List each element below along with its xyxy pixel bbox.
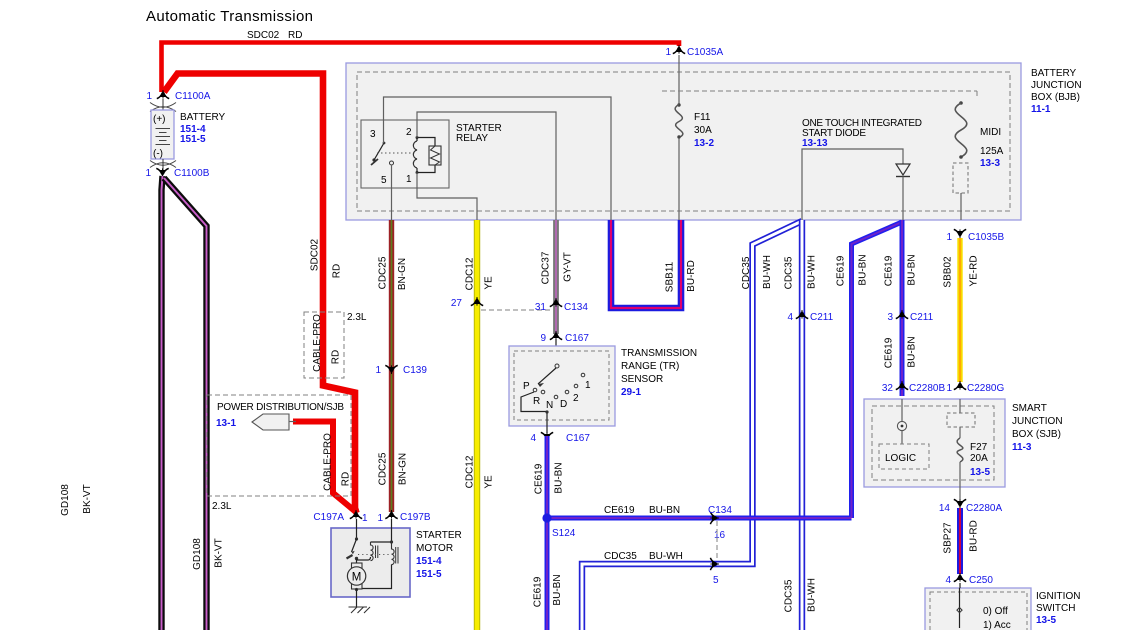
connector C134 pin31 — [550, 298, 562, 307]
svg-text:CE619: CE619 — [533, 576, 544, 607]
svg-text:13-2: 13-2 — [694, 138, 714, 149]
svg-text:BU-BN: BU-BN — [554, 462, 565, 493]
svg-text:C1035A: C1035A — [687, 47, 723, 58]
svg-text:BN-GN: BN-GN — [398, 453, 409, 485]
svg-text:BATTERY: BATTERY — [1031, 68, 1077, 79]
svg-text:CDC25: CDC25 — [378, 256, 389, 289]
fuse MIDI 125A — [959, 101, 963, 105]
battery B1 box — [151, 110, 174, 159]
svg-text:9: 9 — [540, 333, 546, 344]
svg-text:SBB11: SBB11 — [665, 261, 676, 292]
connector C2280B pin32 — [896, 381, 908, 390]
svg-text:JUNCTION: JUNCTION — [1012, 416, 1063, 427]
svg-text:YE-RD: YE-RD — [969, 255, 980, 286]
svg-text:BU-WH: BU-WH — [649, 551, 683, 562]
svg-text:C197B: C197B — [400, 512, 431, 523]
svg-text:YE: YE — [484, 276, 495, 290]
svg-text:GD108: GD108 — [60, 484, 71, 516]
connector C1100A — [157, 90, 169, 99]
svg-text:C1100A: C1100A — [175, 91, 211, 102]
svg-text:Automatic Transmission: Automatic Transmission — [146, 8, 313, 25]
svg-text:32: 32 — [882, 383, 894, 394]
connector C167 pin4 — [541, 432, 553, 441]
connector C211 pin3 — [896, 310, 908, 319]
wire CE619 BU-BN network — [547, 222, 902, 630]
svg-text:SDC02: SDC02 — [247, 30, 280, 41]
starter solenoid coil left — [391, 519, 393, 542]
svg-text:1: 1 — [946, 232, 952, 243]
svg-text:3: 3 — [887, 312, 893, 323]
wire SBP27 BU-RD — [957, 508, 963, 574]
relay switch — [372, 158, 375, 161]
svg-text:13-5: 13-5 — [970, 467, 990, 478]
svg-text:4: 4 — [945, 575, 951, 586]
wire CDC25 BN-GN (BJB to C197B) — [389, 220, 394, 512]
svg-text:RD: RD — [331, 350, 342, 364]
svg-text:SENSOR: SENSOR — [621, 374, 663, 385]
svg-text:RELAY: RELAY — [456, 133, 488, 144]
ignition switch internals — [959, 583, 962, 628]
svg-text:2.3L: 2.3L — [212, 501, 232, 512]
SJB input node — [901, 399, 903, 421]
svg-text:CABLE-PRO: CABLE-PRO — [323, 433, 334, 491]
svg-text:CDC35: CDC35 — [741, 256, 752, 289]
svg-text:2: 2 — [406, 127, 412, 138]
smart junction box SJB — [864, 399, 1005, 487]
svg-text:S124: S124 — [552, 528, 576, 539]
connector C250 pin4 — [954, 573, 966, 582]
battery junction box BJB — [346, 63, 1021, 220]
svg-text:SDC02: SDC02 — [310, 238, 321, 271]
relay actuator dotted — [377, 152, 414, 154]
svg-text:BK-VT: BK-VT — [82, 484, 93, 513]
relay resistor — [417, 138, 435, 173]
connector C134 pin27 — [471, 297, 483, 306]
svg-text:MOTOR: MOTOR — [416, 543, 453, 554]
dashed bus bar — [662, 91, 977, 99]
svg-text:SMART: SMART — [1012, 403, 1047, 414]
svg-text:GD108: GD108 — [192, 538, 203, 570]
svg-text:F27: F27 — [970, 442, 988, 453]
svg-text:BU-BN: BU-BN — [858, 254, 869, 285]
MIDI fuse holder dashed — [953, 163, 968, 193]
relay coil — [416, 136, 419, 139]
ground below starter motor — [355, 588, 358, 591]
fuse F11 30A — [677, 103, 680, 106]
svg-text:CDC35: CDC35 — [604, 551, 637, 562]
svg-text:125A: 125A — [980, 146, 1004, 157]
connector halves arcs top — [150, 103, 176, 112]
svg-text:151-5: 151-5 — [180, 134, 206, 145]
starter motor box — [331, 528, 410, 597]
svg-text:C2280A: C2280A — [966, 503, 1002, 514]
svg-text:CDC37: CDC37 — [541, 251, 552, 284]
svg-text:D: D — [560, 399, 567, 410]
svg-text:C211: C211 — [910, 312, 934, 323]
svg-text:BOX (SJB): BOX (SJB) — [1012, 429, 1061, 440]
motor M1 — [352, 563, 363, 589]
connector C167 pin9 — [550, 331, 562, 340]
wire GD108 BK-VT right — [164, 178, 207, 630]
svg-text:1: 1 — [406, 174, 412, 185]
svg-text:5: 5 — [713, 575, 719, 586]
svg-text:13-3: 13-3 — [980, 158, 1000, 169]
svg-text:C1035B: C1035B — [968, 232, 1004, 243]
LOGIC box — [879, 444, 929, 469]
svg-text:JUNCTION: JUNCTION — [1031, 80, 1082, 91]
svg-text:13-13: 13-13 — [802, 138, 828, 149]
svg-text:13-1: 13-1 — [216, 418, 236, 429]
svg-text:SBB02: SBB02 — [943, 256, 954, 288]
svg-text:4: 4 — [530, 433, 536, 444]
svg-text:C2280G: C2280G — [967, 383, 1004, 394]
connector C2280A pin14 — [959, 487, 961, 500]
svg-text:2: 2 — [573, 393, 579, 404]
svg-text:BU-RD: BU-RD — [969, 520, 980, 552]
svg-text:IGNITION: IGNITION — [1036, 591, 1080, 602]
svg-text:C167: C167 — [565, 333, 589, 344]
wire SBB02 YE-RD — [957, 238, 962, 382]
TR output wire — [521, 392, 547, 426]
splice S124 — [542, 513, 551, 522]
svg-text:RD: RD — [332, 264, 343, 278]
connector C139 — [385, 365, 397, 374]
svg-text:1: 1 — [585, 380, 591, 391]
connector C134 pin16 — [710, 512, 719, 524]
svg-text:C139: C139 — [403, 365, 427, 376]
svg-text:BU-WH: BU-WH — [807, 578, 818, 612]
svg-text:CE619: CE619 — [604, 505, 635, 516]
svg-text:C134: C134 — [564, 302, 588, 313]
dashed link C134 lower — [716, 521, 718, 561]
one touch integrated start diode CR1 — [802, 149, 903, 220]
svg-text:11-3: 11-3 — [1012, 442, 1032, 453]
svg-text:C1100B: C1100B — [174, 168, 210, 179]
svg-text:RD: RD — [341, 472, 352, 486]
svg-text:C134: C134 — [708, 505, 732, 516]
svg-text:31: 31 — [535, 302, 547, 313]
svg-text:CE619: CE619 — [836, 255, 847, 286]
connector C1035A — [673, 45, 685, 54]
battery plates — [156, 129, 171, 145]
svg-text:M: M — [352, 572, 362, 584]
wire SDC02 RD thin (battery to C1035A) — [162, 43, 680, 93]
svg-text:SBP27: SBP27 — [943, 522, 954, 554]
svg-text:F11: F11 — [694, 112, 711, 123]
starter switch — [356, 519, 358, 539]
svg-text:1: 1 — [377, 513, 383, 524]
svg-text:3: 3 — [370, 129, 376, 140]
svg-text:TRANSMISSION: TRANSMISSION — [621, 348, 697, 359]
svg-text:P: P — [523, 381, 530, 392]
svg-text:BK-VT: BK-VT — [214, 538, 225, 567]
svg-text:CDC35: CDC35 — [784, 579, 795, 612]
svg-text:151-4: 151-4 — [416, 556, 442, 567]
svg-text:BU-WH: BU-WH — [762, 255, 773, 289]
wire F11 to BJB bottom — [678, 138, 680, 220]
svg-text:BU-RD: BU-RD — [686, 260, 697, 292]
wire SDC02 RD thick cable (battery to C197A) — [164, 74, 357, 514]
starter relay K1 box — [361, 120, 449, 188]
svg-text:C2280B: C2280B — [909, 383, 945, 394]
wire CDC12 YE (BJB to bottom) — [474, 220, 480, 630]
svg-text:1) Acc: 1) Acc — [983, 620, 1011, 630]
svg-text:BU-BN: BU-BN — [649, 505, 680, 516]
svg-text:CDC12: CDC12 — [465, 455, 476, 488]
wire GD108 BK-VT left — [162, 176, 163, 630]
svg-text:C250: C250 — [969, 575, 993, 586]
svg-text:1: 1 — [362, 513, 368, 524]
svg-text:BOX (BJB): BOX (BJB) — [1031, 92, 1080, 103]
svg-text:BU-BN: BU-BN — [552, 574, 563, 605]
wire CDC35 BU-WH straight (BJB to bottom) — [799, 220, 805, 630]
svg-text:1: 1 — [146, 91, 152, 102]
ignition switch box — [925, 588, 1031, 630]
svg-text:14: 14 — [939, 503, 951, 514]
svg-text:STARTER: STARTER — [416, 530, 462, 541]
starter solenoid coil right — [392, 542, 395, 565]
connector halves arcs bottom — [150, 161, 176, 168]
TR sensor lever — [555, 364, 559, 368]
svg-text:BU-WH: BU-WH — [807, 255, 818, 289]
svg-text:MIDI: MIDI — [980, 127, 1001, 138]
connector C2280G pin1 — [954, 381, 966, 390]
svg-text:RANGE (TR): RANGE (TR) — [621, 361, 679, 372]
relay pin5 — [390, 161, 394, 165]
svg-text:CABLE-PRO: CABLE-PRO — [312, 314, 323, 372]
svg-text:CE619: CE619 — [884, 337, 895, 368]
svg-text:16: 16 — [714, 530, 726, 541]
svg-text:2.3L: 2.3L — [347, 312, 367, 323]
svg-text:1: 1 — [946, 383, 952, 394]
svg-text:POWER DISTRIBUTION/SJB: POWER DISTRIBUTION/SJB — [217, 402, 344, 413]
svg-text:CDC35: CDC35 — [784, 256, 795, 289]
svg-text:CE619: CE619 — [534, 463, 545, 494]
svg-text:0) Off: 0) Off — [983, 606, 1008, 617]
svg-text:30A: 30A — [694, 125, 712, 136]
power distribution box (cable-pro 2) — [207, 395, 351, 496]
svg-text:4: 4 — [787, 312, 793, 323]
connector C134 pin5 — [710, 558, 719, 570]
fuse F27 20A — [959, 399, 961, 413]
svg-text:1: 1 — [145, 168, 151, 179]
svg-text:BN-GN: BN-GN — [397, 258, 408, 290]
wire CDC37 GY-VT (BJB to TR sensor) — [553, 220, 559, 334]
svg-text:C167: C167 — [566, 433, 590, 444]
svg-text:1: 1 — [375, 365, 381, 376]
svg-text:20A: 20A — [970, 453, 988, 464]
svg-text:CDC25: CDC25 — [378, 452, 389, 485]
svg-text:CE619: CE619 — [884, 255, 895, 286]
relay pin2 wire to CDC37 — [417, 112, 556, 220]
transmission range TR sensor box — [555, 339, 557, 366]
wire from C1035A to F11 — [678, 55, 680, 104]
svg-text:1: 1 — [665, 47, 671, 58]
svg-text:11-1: 11-1 — [1031, 104, 1051, 115]
svg-text:YE: YE — [484, 475, 495, 489]
cable-pro box 1 — [304, 312, 344, 378]
connector C211 pin4 — [796, 310, 808, 319]
wire CDC35 BU-WH branch (BJB to bottom via corner) — [582, 221, 802, 630]
svg-text:151-5: 151-5 — [416, 569, 442, 580]
connector C197A — [350, 510, 362, 519]
svg-text:13-5: 13-5 — [1036, 615, 1056, 626]
svg-text:C211: C211 — [810, 312, 834, 323]
svg-text:C197A: C197A — [313, 512, 344, 523]
svg-text:(+): (+) — [153, 114, 166, 125]
relay pin3 wire to SBB11 — [384, 97, 612, 220]
svg-text:(-): (-) — [153, 149, 163, 160]
svg-text:R: R — [533, 396, 540, 407]
svg-text:SWITCH: SWITCH — [1036, 603, 1075, 614]
svg-text:LOGIC: LOGIC — [885, 453, 916, 464]
connector C1035B — [954, 229, 966, 238]
connector C197B — [385, 510, 397, 519]
relay pin1 wire to CDC12 — [417, 173, 477, 221]
svg-text:29-1: 29-1 — [621, 387, 641, 398]
wire SBB11 BU-RD U-shape — [611, 220, 681, 308]
svg-text:RD: RD — [288, 30, 302, 41]
off-page pentagon S/JB — [252, 414, 289, 430]
dashed link C134 — [481, 309, 552, 311]
wire RD branch (power distribution pentagon to C197A) — [293, 422, 356, 513]
connector C1100B — [156, 168, 168, 177]
svg-text:CDC12: CDC12 — [465, 257, 476, 290]
svg-text:N: N — [546, 400, 553, 411]
wire CE619 BU-BN (to SJB) — [900, 220, 905, 396]
svg-text:27: 27 — [451, 298, 463, 309]
svg-text:BU-BN: BU-BN — [907, 336, 918, 367]
svg-text:BATTERY: BATTERY — [180, 112, 226, 123]
svg-text:5: 5 — [381, 175, 387, 186]
svg-text:BU-BN: BU-BN — [907, 254, 918, 285]
svg-text:GY-VT: GY-VT — [563, 252, 574, 282]
